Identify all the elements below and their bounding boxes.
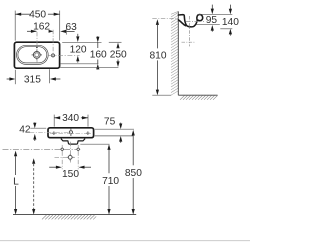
tap centerline front xyxy=(30,132,71,134)
svg-text:63: 63 xyxy=(66,22,78,33)
svg-text:140: 140 xyxy=(222,17,239,28)
drain centerline horizontal xyxy=(55,156,76,158)
svg-text:L: L xyxy=(13,177,19,188)
svg-text:75: 75 xyxy=(104,117,116,128)
wall hatching xyxy=(171,11,178,95)
siphon cross horizontal xyxy=(182,41,195,43)
svg-text:340: 340 xyxy=(62,113,79,124)
svg-text:150: 150 xyxy=(62,169,79,180)
footer separator line xyxy=(0,240,250,242)
dimension 42 xyxy=(19,122,46,141)
fixing hole right front xyxy=(86,131,90,135)
dimension 95 xyxy=(206,5,218,32)
svg-text:250: 250 xyxy=(110,49,127,60)
tap hole plan xyxy=(32,50,42,60)
siphon centerline vertical xyxy=(189,16,191,46)
bowl bump front xyxy=(61,139,85,145)
extension line rect top right xyxy=(62,41,121,43)
extension left hole vertical xyxy=(61,145,63,169)
fixing level extension right xyxy=(95,135,134,137)
svg-text:160: 160 xyxy=(90,49,107,60)
svg-text:42: 42 xyxy=(19,124,31,135)
basin plan outline xyxy=(14,42,59,68)
rim extension line 95 140 top xyxy=(198,13,233,15)
centerline tap vertical plan xyxy=(36,32,38,65)
overflow hole plan xyxy=(52,54,55,57)
svg-text:850: 850 xyxy=(125,168,142,179)
dimension 140 xyxy=(222,5,239,36)
dimension 850 xyxy=(125,130,142,215)
tap level line side xyxy=(186,20,204,22)
centerline horizontal plan xyxy=(49,54,80,56)
svg-text:810: 810 xyxy=(150,50,167,61)
dimension 340 xyxy=(54,113,88,127)
fixing hole left front xyxy=(52,131,56,135)
dimension 250 xyxy=(60,43,127,68)
centerline overflow vertical plan xyxy=(52,30,54,54)
dimension 710 xyxy=(80,144,119,214)
floor side view xyxy=(178,94,217,96)
fixing centerline front xyxy=(50,133,93,135)
svg-text:120: 120 xyxy=(70,45,87,56)
140 bottom reference line xyxy=(220,28,232,30)
svg-text:95: 95 xyxy=(206,15,218,26)
tap hole front xyxy=(69,128,72,136)
bowl outer rim xyxy=(17,45,49,64)
wall face line xyxy=(177,11,179,95)
top edge extension right xyxy=(95,128,134,130)
dimension L xyxy=(11,151,20,215)
dimension 162 xyxy=(27,22,54,33)
drain circle front xyxy=(67,154,74,161)
drain centerline vertical xyxy=(70,142,72,163)
dimension 160 xyxy=(60,36,107,69)
bowl inner rim xyxy=(18,47,47,63)
dimension 75 xyxy=(104,117,122,143)
floor line elevation xyxy=(13,214,136,216)
dashed dimension drain height xyxy=(32,158,35,214)
dimension 120 xyxy=(70,34,87,63)
extension right hole vertical xyxy=(77,145,79,169)
holes centerline long xyxy=(3,148,77,150)
rim level centerline xyxy=(152,17,179,19)
basin front outline xyxy=(48,128,94,138)
floor hatching elevation xyxy=(42,215,96,219)
dimension 810 xyxy=(150,19,172,95)
svg-text:315: 315 xyxy=(24,75,41,86)
svg-text:450: 450 xyxy=(29,10,46,21)
svg-text:710: 710 xyxy=(102,176,119,187)
basin profile section xyxy=(178,14,202,26)
dimension 63 xyxy=(60,22,77,34)
floor hatching side view xyxy=(180,96,218,100)
dimension 315 xyxy=(7,69,61,85)
dimension 450 xyxy=(15,10,60,41)
hole markers below basin xyxy=(61,148,80,151)
95 bottom reference line xyxy=(197,24,220,26)
dimension 150 xyxy=(49,166,91,181)
svg-text:162: 162 xyxy=(33,22,50,33)
